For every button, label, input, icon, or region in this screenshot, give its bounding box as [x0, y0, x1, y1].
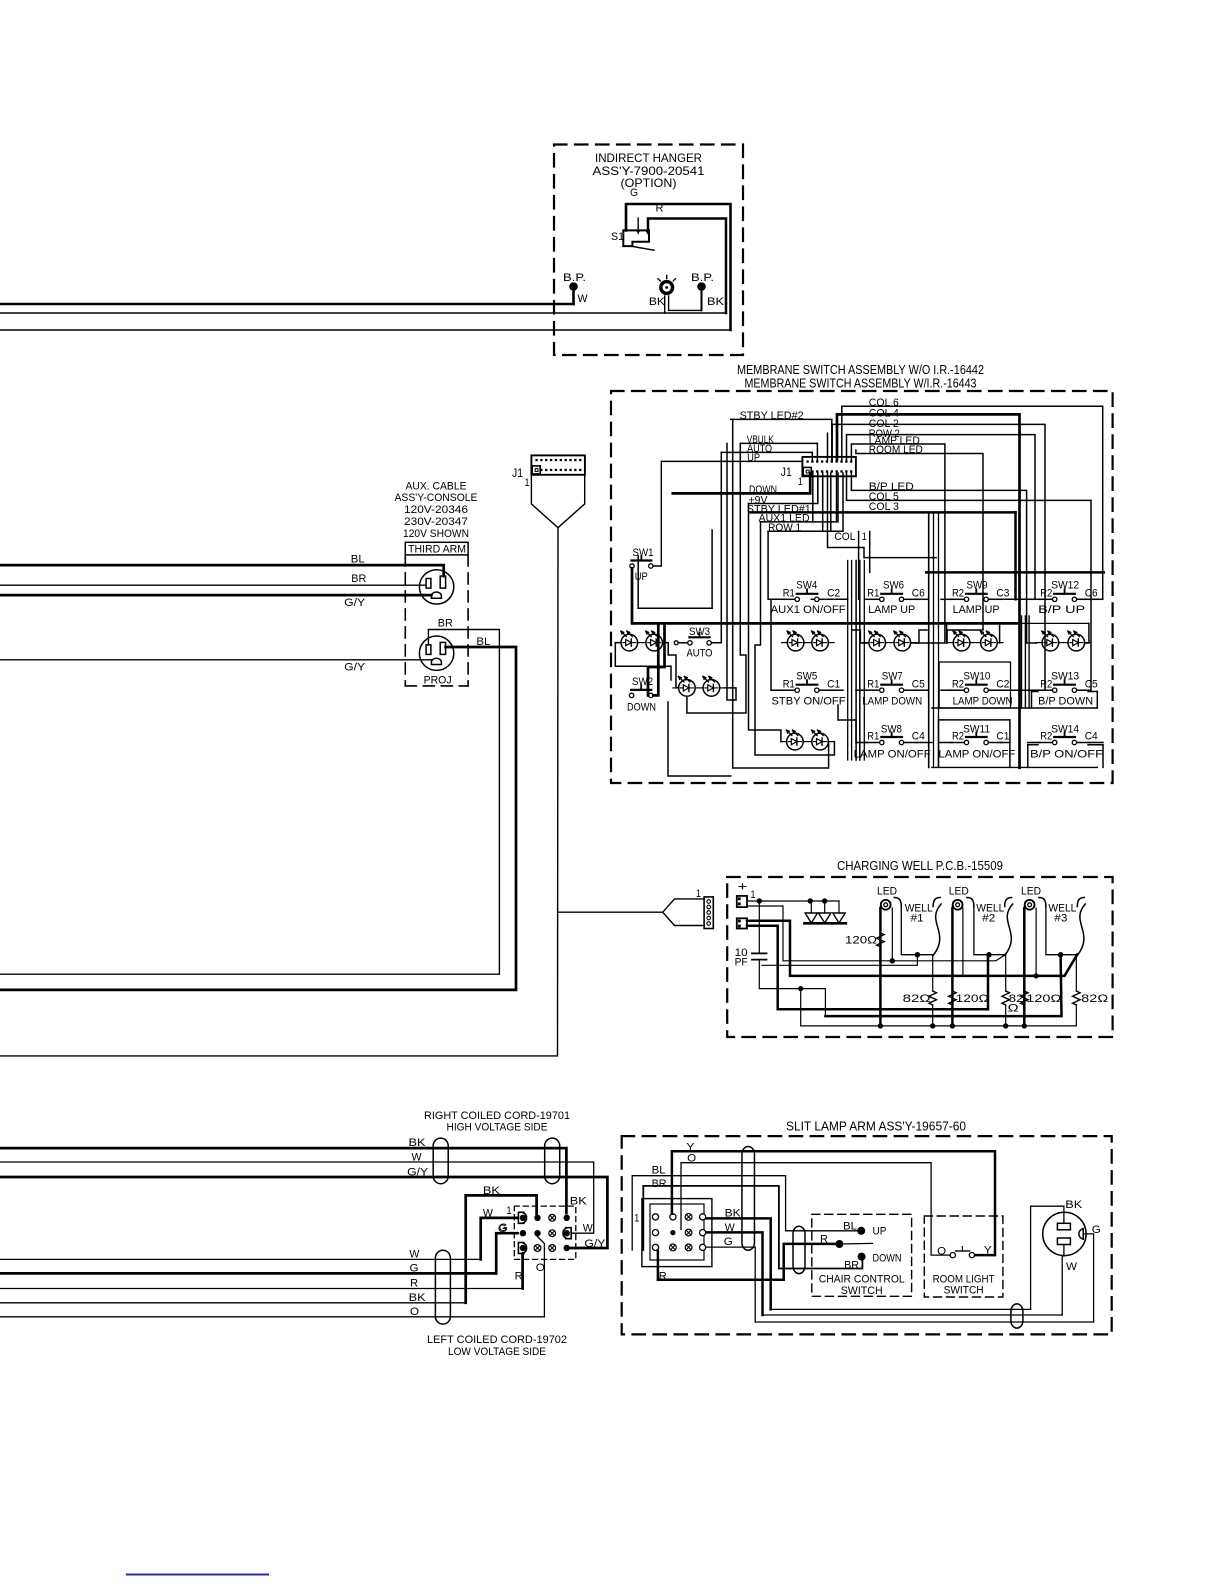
svg-text:SW5: SW5 — [796, 671, 817, 683]
svg-text:ROOM LIGHT: ROOM LIGHT — [933, 1273, 995, 1285]
svg-text:1: 1 — [507, 1205, 512, 1217]
svg-text:AUX. CABLE: AUX. CABLE — [406, 480, 467, 492]
svg-text:R: R — [410, 1277, 418, 1289]
svg-text:(OPTION): (OPTION) — [621, 176, 677, 190]
svg-text:SW8: SW8 — [881, 723, 902, 735]
svg-text:THIRD ARM: THIRD ARM — [408, 544, 466, 556]
svg-text:C1: C1 — [827, 678, 840, 690]
svg-text:SW9: SW9 — [967, 580, 988, 592]
svg-text:UP: UP — [635, 571, 648, 583]
svg-text:R1: R1 — [867, 588, 879, 600]
svg-text:R: R — [820, 1233, 828, 1245]
svg-text:BK: BK — [649, 296, 666, 308]
svg-text:LAMP UP: LAMP UP — [953, 604, 1000, 616]
svg-text:C6: C6 — [912, 588, 925, 600]
svg-text:AUX1 ON/OFF: AUX1 ON/OFF — [771, 604, 846, 616]
svg-text:120Ω: 120Ω — [1026, 993, 1061, 1005]
svg-text:120V SHOWN: 120V SHOWN — [403, 528, 469, 540]
svg-text:BR: BR — [652, 1178, 667, 1190]
svg-text:G/Y: G/Y — [344, 597, 366, 609]
svg-text:O: O — [937, 1245, 946, 1257]
svg-text:C4: C4 — [1085, 731, 1098, 743]
svg-text:UP: UP — [873, 1225, 887, 1237]
svg-text:C1: C1 — [996, 731, 1009, 743]
svg-text:SW4: SW4 — [796, 580, 817, 592]
svg-text:ASS'Y-CONSOLE: ASS'Y-CONSOLE — [395, 492, 478, 504]
svg-text:R2: R2 — [1040, 678, 1052, 690]
svg-text:STBY ON/OFF: STBY ON/OFF — [772, 696, 846, 708]
svg-text:82Ω: 82Ω — [903, 993, 931, 1005]
svg-text:BK: BK — [483, 1185, 501, 1197]
svg-text:LAMP UP: LAMP UP — [868, 604, 915, 616]
svg-text:LED: LED — [877, 886, 897, 898]
svg-text:BR: BR — [438, 618, 453, 630]
svg-text:B.P.: B.P. — [691, 272, 714, 284]
svg-text:C3: C3 — [996, 588, 1009, 600]
svg-text:R1: R1 — [783, 678, 795, 690]
svg-text:SWITCH: SWITCH — [944, 1285, 984, 1297]
svg-text:LAMP DOWN: LAMP DOWN — [862, 696, 922, 708]
svg-text:R1: R1 — [867, 678, 879, 690]
svg-text:G: G — [499, 1222, 508, 1234]
svg-text:COL: COL — [834, 531, 855, 543]
svg-text:SW10: SW10 — [963, 670, 990, 682]
svg-text:LEFT COILED CORD-19702: LEFT COILED CORD-19702 — [427, 1334, 567, 1346]
svg-text:120Ω: 120Ω — [956, 993, 989, 1005]
svg-text:PROJ: PROJ — [424, 675, 452, 687]
svg-text:ROW 1: ROW 1 — [768, 522, 801, 534]
svg-text:SLIT LAMP ARM ASS'Y-19657-60: SLIT LAMP ARM ASS'Y-19657-60 — [786, 1120, 966, 1134]
svg-text:C5: C5 — [912, 678, 925, 690]
svg-text:BL: BL — [652, 1165, 666, 1177]
svg-text:CHAIR CONTROL: CHAIR CONTROL — [819, 1273, 905, 1285]
svg-text:W: W — [583, 1223, 594, 1235]
svg-text:C2: C2 — [827, 588, 840, 600]
svg-text:G/Y: G/Y — [584, 1238, 606, 1250]
svg-text:RIGHT COILED CORD-19701: RIGHT COILED CORD-19701 — [424, 1110, 570, 1122]
svg-text:120Ω: 120Ω — [845, 935, 877, 947]
svg-text:AUTO: AUTO — [687, 648, 713, 660]
svg-text:G/Y: G/Y — [344, 662, 366, 674]
svg-text:HIGH VOLTAGE SIDE: HIGH VOLTAGE SIDE — [447, 1122, 548, 1134]
svg-text:LED: LED — [1021, 886, 1041, 898]
svg-text:CHARGING WELL P.C.B.-15509: CHARGING WELL P.C.B.-15509 — [837, 859, 1003, 873]
svg-text:#3: #3 — [1054, 913, 1067, 925]
svg-text:W: W — [483, 1208, 494, 1220]
svg-text:R2: R2 — [952, 588, 964, 600]
svg-text:SW13: SW13 — [1051, 670, 1079, 682]
svg-text:#1: #1 — [911, 913, 924, 925]
svg-text:BL: BL — [843, 1221, 857, 1233]
svg-text:G: G — [630, 187, 638, 199]
svg-text:LAMP DOWN: LAMP DOWN — [953, 696, 1013, 708]
svg-text:STBY LED#2: STBY LED#2 — [740, 410, 804, 422]
svg-text:PF: PF — [735, 957, 748, 969]
svg-text:ROOM LED: ROOM LED — [869, 444, 923, 456]
svg-text:Ω: Ω — [1008, 1003, 1019, 1015]
svg-text:B.P.: B.P. — [563, 272, 586, 284]
svg-text:82Ω: 82Ω — [1081, 993, 1108, 1005]
svg-text:1: 1 — [525, 477, 530, 489]
svg-text:1: 1 — [798, 476, 803, 488]
svg-text:1: 1 — [862, 531, 867, 543]
svg-text:B/P ON/OFF: B/P ON/OFF — [1030, 748, 1103, 760]
svg-text:W: W — [409, 1248, 420, 1260]
svg-text:R2: R2 — [952, 731, 964, 743]
svg-text:BL: BL — [351, 554, 365, 566]
svg-text:+: + — [738, 879, 748, 894]
svg-text:1: 1 — [751, 889, 756, 901]
svg-text:MEMBRANE SWITCH ASSEMBLY W/I.R: MEMBRANE SWITCH ASSEMBLY W/I.R.-16443 — [745, 377, 977, 391]
svg-text:W: W — [1066, 1261, 1078, 1273]
svg-text:J1: J1 — [781, 467, 792, 479]
svg-text:SW14: SW14 — [1051, 723, 1079, 735]
svg-text:SW6: SW6 — [883, 580, 904, 592]
svg-text:BR: BR — [844, 1259, 859, 1271]
svg-text:R2: R2 — [1040, 731, 1052, 743]
svg-text:#2: #2 — [982, 913, 995, 925]
svg-text:C4: C4 — [912, 731, 925, 743]
svg-text:B/P DOWN: B/P DOWN — [1038, 696, 1093, 708]
svg-text:G: G — [724, 1236, 733, 1248]
svg-text:R1: R1 — [783, 588, 795, 600]
svg-text:MEMBRANE SWITCH ASSEMBLY W/O I: MEMBRANE SWITCH ASSEMBLY W/O I.R.-16442 — [737, 363, 984, 377]
svg-text:1: 1 — [634, 1213, 639, 1225]
svg-text:BK: BK — [570, 1196, 588, 1208]
svg-text:230V-20347: 230V-20347 — [404, 516, 468, 528]
svg-text:SW1: SW1 — [633, 547, 654, 559]
svg-text:UP: UP — [747, 452, 760, 464]
svg-text:SW3: SW3 — [689, 626, 710, 638]
svg-text:LOW VOLTAGE SIDE: LOW VOLTAGE SIDE — [448, 1346, 546, 1358]
svg-text:BR: BR — [351, 573, 366, 585]
svg-text:LAMP ON/OFF: LAMP ON/OFF — [854, 748, 931, 760]
svg-text:BK: BK — [1065, 1199, 1083, 1211]
svg-text:R1: R1 — [867, 731, 879, 743]
svg-text:BK: BK — [707, 296, 725, 308]
svg-text:SW7: SW7 — [882, 671, 903, 683]
svg-text:J1: J1 — [512, 468, 523, 480]
svg-text:W: W — [578, 293, 589, 305]
svg-text:SWITCH: SWITCH — [841, 1285, 883, 1297]
svg-text:INDIRECT HANGER: INDIRECT HANGER — [595, 151, 702, 165]
svg-text:R2: R2 — [1040, 588, 1052, 600]
svg-text:S1: S1 — [611, 231, 624, 243]
svg-text:R2: R2 — [952, 678, 964, 690]
svg-text:DOWN: DOWN — [873, 1252, 902, 1264]
svg-text:SW11: SW11 — [963, 723, 990, 735]
svg-text:SW12: SW12 — [1051, 580, 1079, 592]
svg-text:DOWN: DOWN — [627, 702, 656, 714]
svg-text:LED: LED — [949, 886, 969, 898]
svg-text:SW2: SW2 — [632, 676, 653, 688]
svg-text:LAMP ON/OFF: LAMP ON/OFF — [938, 748, 1015, 760]
svg-text:120V-20346: 120V-20346 — [404, 504, 468, 516]
svg-text:Y: Y — [984, 1245, 993, 1257]
svg-text:C2: C2 — [996, 678, 1009, 690]
